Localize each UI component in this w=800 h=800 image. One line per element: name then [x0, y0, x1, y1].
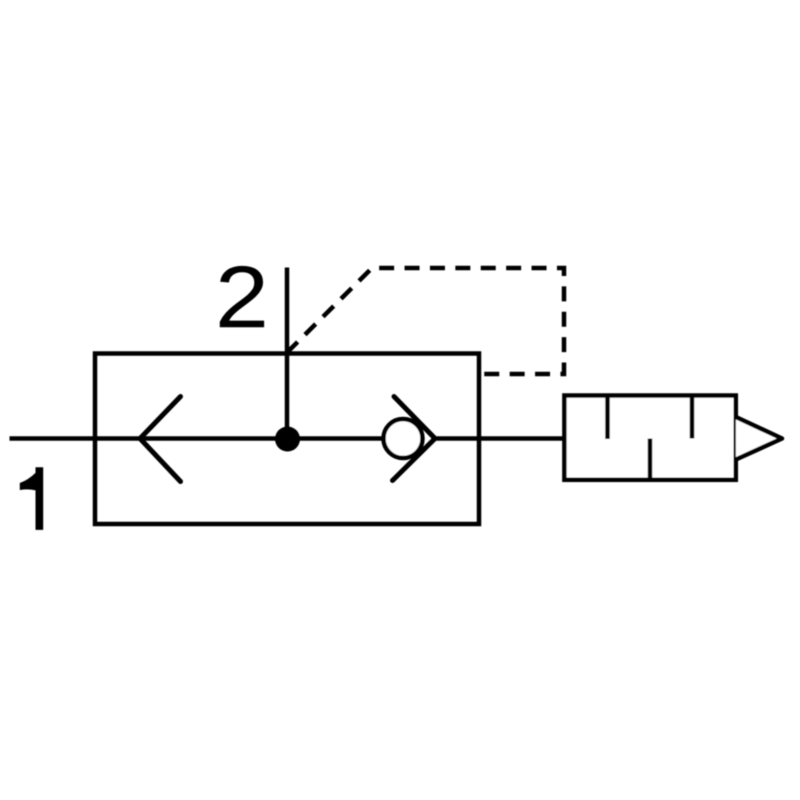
exhaust triangle — [736, 417, 782, 460]
junction node — [275, 427, 300, 452]
wire: port 2 vertical line — [285, 268, 290, 440]
poppet seat arrow (left, open towards port 1) — [140, 397, 181, 482]
silencer baffle 2 — [648, 439, 653, 480]
valve body box — [95, 354, 479, 525]
wire: main flow line port 1 to check valve — [10, 436, 404, 441]
wire: check valve to silencer — [435, 436, 565, 441]
silencer baffle 1 — [605, 396, 610, 440]
silencer body — [564, 396, 735, 480]
silencer baffle 3 — [690, 396, 695, 439]
check valve ball — [384, 419, 423, 458]
check valve seat — [393, 397, 436, 481]
pilot control line (dashed) — [287, 268, 564, 374]
port label 2 — [220, 266, 264, 327]
port label 1 — [20, 468, 43, 530]
